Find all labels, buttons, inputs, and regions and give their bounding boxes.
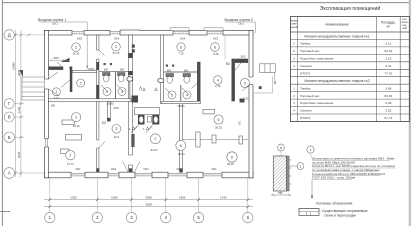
oval fixtures on walls bbox=[127, 77, 133, 81]
svg-text:1: 1 bbox=[300, 164, 302, 168]
svg-text:6: 6 bbox=[231, 156, 233, 160]
svg-text:850: 850 bbox=[184, 70, 189, 73]
svg-text:4: 4 bbox=[186, 93, 188, 97]
left axis circles bbox=[4, 30, 15, 179]
svg-text:1340: 1340 bbox=[17, 106, 21, 113]
svg-text:2: 2 bbox=[154, 137, 156, 141]
svg-text:стены и перегородки: стены и перегородки bbox=[324, 213, 356, 217]
dim ticks line1 bbox=[48, 198, 249, 208]
svg-text:2: 2 bbox=[69, 154, 71, 158]
svg-text:4: 4 bbox=[293, 109, 295, 113]
section mark dark flag left bbox=[19, 70, 23, 77]
dark junction at party wall / h-wall bbox=[132, 96, 139, 103]
svg-text:1: 1 bbox=[293, 42, 295, 46]
wall under podsobka unit2 bbox=[180, 103, 183, 172]
svg-text:22,9: 22,9 bbox=[114, 135, 120, 139]
svg-text:м²: м² bbox=[387, 25, 390, 29]
svg-text:1500: 1500 bbox=[113, 107, 119, 110]
bottom wall chunks bbox=[45, 172, 254, 178]
podsobka1 top wall bbox=[72, 70, 96, 72]
svg-text:6: 6 bbox=[214, 45, 216, 49]
window labels top bbox=[77, 36, 219, 40]
svg-text:3: 3 bbox=[171, 93, 173, 97]
shaft between party walls bbox=[135, 108, 160, 115]
svg-text:84,63: 84,63 bbox=[384, 94, 392, 98]
wc door swings unit1 bbox=[101, 85, 108, 92]
svg-text:36,32: 36,32 bbox=[215, 125, 222, 129]
svg-text:1380: 1380 bbox=[111, 196, 118, 200]
svg-text:3: 3 bbox=[115, 127, 117, 131]
sheet frame bbox=[1, 0, 3, 226]
svg-text:6: 6 bbox=[218, 118, 220, 122]
porch 2 outside right wall bbox=[260, 64, 276, 73]
svg-text:Торговый зал: Торговый зал bbox=[300, 49, 319, 53]
svg-text:2: 2 bbox=[75, 46, 77, 50]
svg-text:См.1: См.1 bbox=[52, 22, 58, 26]
svg-text:2: 2 bbox=[115, 45, 117, 49]
wall unit2 right of wc bbox=[197, 62, 200, 103]
wall unit2 wc left (party leaf B) bbox=[160, 35, 163, 103]
svg-text:20,01: 20,01 bbox=[178, 152, 185, 156]
svg-text:5,28: 5,28 bbox=[213, 52, 219, 56]
toilets unit1 bbox=[103, 73, 126, 82]
svg-text:ИТОГО: ИТОГО bbox=[300, 116, 311, 120]
door swings below shaft bbox=[131, 126, 137, 133]
svg-text:36,35: 36,35 bbox=[73, 52, 80, 56]
door swings near party wall bottom bbox=[123, 161, 129, 172]
bottom dimension lines bbox=[44, 199, 253, 201]
svg-text:750: 750 bbox=[278, 191, 283, 195]
svg-text:2,31: 2,31 bbox=[385, 64, 391, 68]
wc door swings unit2 bbox=[165, 88, 172, 95]
left vertical dim lines bbox=[14, 30, 16, 177]
svg-text:2025: 2025 bbox=[17, 151, 21, 158]
hatched wall section bbox=[273, 156, 286, 191]
svg-text:62,19: 62,19 bbox=[73, 124, 80, 128]
svg-text:5: 5 bbox=[244, 81, 246, 85]
svg-text:2: 2 bbox=[293, 49, 295, 53]
bottom windows bbox=[71, 174, 222, 176]
wc block unit1 bbox=[99, 72, 130, 99]
svg-text:щений: щений bbox=[290, 25, 299, 29]
svg-text:9000: 9000 bbox=[146, 203, 153, 207]
svg-text:ОК2: ОК2 bbox=[143, 167, 149, 171]
axis circle A of detail bbox=[278, 144, 285, 151]
thin wc partition unit2 bbox=[180, 85, 182, 101]
wall fixtures left room bbox=[62, 120, 75, 125]
svg-text:3,13: 3,13 bbox=[54, 96, 60, 100]
tambur1 door swings bbox=[49, 72, 59, 79]
svg-text:1010: 1010 bbox=[240, 56, 246, 59]
svg-text:34,76: 34,76 bbox=[113, 51, 120, 55]
h wall under wc unit1 bbox=[49, 99, 132, 102]
top windows bbox=[72, 32, 223, 34]
right wall bbox=[249, 31, 253, 178]
wc top wall unit2 bbox=[164, 71, 198, 73]
svg-text:2,52: 2,52 bbox=[385, 109, 391, 113]
svg-text:74,73: 74,73 bbox=[67, 162, 74, 166]
svg-text:3,08: 3,08 bbox=[385, 86, 391, 90]
svg-text:Подсобное помещение: Подсобное помещение bbox=[300, 101, 334, 105]
svg-text:См.1: См.1 bbox=[238, 22, 244, 26]
svg-text:2: 2 bbox=[293, 94, 295, 98]
svg-text:Условные обозначения: Условные обозначения bbox=[316, 201, 353, 205]
sills above windows right half bbox=[170, 28, 189, 31]
svg-text:1743: 1743 bbox=[220, 196, 227, 200]
junction ticks bbox=[96, 168, 99, 172]
svg-text:77,76: 77,76 bbox=[384, 71, 392, 75]
svg-text:Торговый зал: Торговый зал bbox=[300, 94, 319, 98]
svg-text:4: 4 bbox=[217, 78, 219, 82]
svg-text:ВД1: ВД1 bbox=[226, 63, 231, 66]
svg-text:ний: ний bbox=[403, 26, 408, 30]
svg-text:Д: Д bbox=[8, 33, 11, 38]
svg-text:4: 4 bbox=[106, 90, 108, 94]
svg-text:7,10: 7,10 bbox=[178, 52, 184, 56]
svg-text:Магазин непродовольственных то: Магазин непродовольственных товаров №2 bbox=[304, 79, 369, 83]
counter unit2 bbox=[183, 139, 248, 141]
svg-text:ОК4: ОК4 bbox=[114, 36, 120, 40]
svg-text:Входная группа 1: Входная группа 1 bbox=[38, 18, 66, 22]
triangle vent marks bbox=[132, 87, 158, 130]
h wall under wc unit2 bbox=[162, 101, 201, 103]
svg-text:84,63: 84,63 bbox=[151, 148, 158, 152]
sheet right edge bbox=[409, 0, 411, 226]
svg-text:2,48: 2,48 bbox=[385, 101, 391, 105]
svg-text:6: 6 bbox=[180, 45, 182, 49]
note text bbox=[312, 157, 395, 180]
svg-text:3: 3 bbox=[293, 101, 295, 105]
svg-text:1(300): 1(300) bbox=[88, 68, 95, 71]
svg-text:ОК2: ОК2 bbox=[111, 167, 117, 171]
svg-text:1: 1 bbox=[55, 90, 57, 94]
left wall bbox=[45, 31, 49, 178]
dark segments on axis2 wall bbox=[96, 85, 99, 100]
table grid bbox=[291, 17, 410, 122]
svg-text:2: 2 bbox=[80, 81, 82, 85]
svg-text:ОК3: ОК3 bbox=[213, 36, 219, 40]
door opening left wall bbox=[44, 79, 49, 89]
svg-text:850: 850 bbox=[120, 69, 125, 72]
svg-text:2,19: 2,19 bbox=[215, 84, 221, 88]
svg-text:А: А bbox=[8, 171, 11, 176]
svg-text:- Существующие сохраняемые: - Существующие сохраняемые bbox=[320, 209, 368, 213]
svg-text:800: 800 bbox=[167, 70, 172, 73]
svg-text:ИТОГО: ИТОГО bbox=[300, 71, 311, 75]
svg-text:1: 1 bbox=[310, 148, 312, 152]
dark marks shaft top bbox=[132, 45, 135, 48]
svg-text:Экспликация помещений: Экспликация помещений bbox=[320, 5, 381, 12]
leader arrow down bbox=[311, 179, 313, 198]
svg-text:Входная группа 2: Входная группа 2 bbox=[225, 18, 253, 22]
svg-text:ГОСТ 530-2012 - толщ. 250мм: ГОСТ 530-2012 - толщ. 250мм bbox=[312, 176, 355, 180]
svg-text:Тамбур: Тамбур bbox=[300, 86, 311, 90]
svg-text:800: 800 bbox=[104, 69, 109, 72]
svg-text:2(300): 2(300) bbox=[178, 105, 185, 108]
detail dim 750 bbox=[271, 194, 291, 196]
dim labels bbox=[70, 196, 227, 207]
svg-text:1953: 1953 bbox=[179, 196, 186, 200]
svg-text:Б: Б bbox=[8, 135, 11, 140]
svg-text:Подсобное помещение: Подсобное помещение bbox=[300, 57, 334, 61]
area labels under circles bbox=[54, 51, 249, 166]
wall stub below wc unit1 bbox=[107, 101, 110, 119]
svg-text:ОК3: ОК3 bbox=[77, 36, 83, 40]
svg-text:Наименование: Наименование bbox=[325, 23, 349, 27]
svg-text:3: 3 bbox=[121, 90, 123, 94]
svg-text:1: 1 bbox=[293, 86, 295, 90]
left axis horizontal lines bbox=[14, 34, 46, 174]
svg-text:2: 2 bbox=[75, 116, 77, 120]
callout circle to plaster bbox=[297, 163, 304, 170]
note flag circle bbox=[307, 146, 314, 153]
svg-text:ОК1: ОК1 bbox=[239, 120, 242, 125]
svg-text:3290: 3290 bbox=[145, 196, 152, 200]
tambur1 dark walls bbox=[49, 67, 64, 70]
plaster strip bbox=[287, 156, 290, 191]
svg-text:Тамбур: Тамбур bbox=[300, 42, 311, 46]
svg-text:ОК4: ОК4 bbox=[180, 36, 186, 40]
svg-text:13980: 13980 bbox=[11, 62, 15, 70]
window opening left wall bbox=[44, 139, 49, 148]
svg-text:В: В bbox=[8, 115, 11, 120]
svg-text:4: 4 bbox=[293, 64, 295, 68]
svg-text:ЗД1: ЗД1 bbox=[102, 122, 107, 125]
svg-text:96,32: 96,32 bbox=[227, 162, 234, 166]
dark wall tambur2 bbox=[232, 59, 235, 102]
svg-text:805: 805 bbox=[51, 105, 56, 108]
window labels bottom bbox=[75, 167, 217, 171]
partition axis2 bbox=[97, 35, 99, 172]
svg-text:Магазин непродовольственных то: Магазин непродовольственных товаров №1 bbox=[304, 34, 369, 38]
frame tick bottom-left bbox=[0, 211, 10, 213]
svg-text:3: 3 bbox=[293, 57, 295, 61]
axis verticals bbox=[50, 178, 248, 212]
entrance porch steps left bbox=[22, 77, 45, 100]
top wall chunks bbox=[45, 31, 254, 36]
svg-text:2,31: 2,31 bbox=[243, 97, 249, 101]
door opening right wall bbox=[249, 77, 254, 85]
svg-text:62,19: 62,19 bbox=[384, 49, 392, 53]
svg-text:1325: 1325 bbox=[70, 196, 77, 200]
party wall leaf A bbox=[128, 35, 132, 172]
svg-text:ОК1: ОК1 bbox=[211, 167, 217, 171]
small dark vent marks above wc blocks bbox=[104, 63, 106, 65]
bottom axis circles bbox=[45, 212, 253, 222]
header texts bbox=[290, 17, 409, 30]
svg-text:97,73: 97,73 bbox=[384, 116, 392, 120]
svg-text:6: 6 bbox=[180, 144, 182, 148]
dark fixture san2 bbox=[240, 99, 245, 103]
svg-text:Санузел: Санузел bbox=[300, 64, 312, 68]
svg-text:3,13: 3,13 bbox=[385, 42, 391, 46]
svg-text:3000: 3000 bbox=[53, 57, 59, 60]
svg-text:2,19: 2,19 bbox=[385, 57, 391, 61]
svg-text:ОК1: ОК1 bbox=[75, 167, 81, 171]
svg-text:Санузел: Санузел bbox=[300, 109, 312, 113]
toilets unit2 bbox=[166, 74, 191, 84]
svg-text:3(300): 3(300) bbox=[107, 103, 114, 106]
